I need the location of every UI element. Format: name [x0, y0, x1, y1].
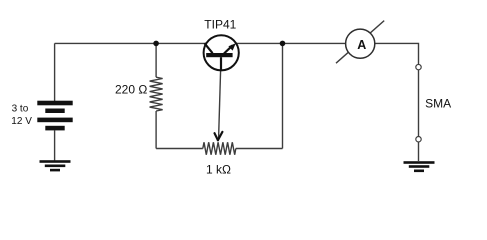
svg-text:SMA: SMA: [425, 96, 451, 110]
wire top horizontal rail: [55, 42, 346, 44]
junction dot right: [280, 41, 286, 47]
wire pot right: [236, 148, 283, 150]
junction dot left: [153, 41, 159, 47]
wire 220 ohm branch bottom: [155, 111, 157, 149]
wire battery bottom to ground: [54, 130, 56, 160]
wire transistor base to wiper: [219, 57, 221, 138]
svg-text:220 Ω: 220 Ω: [115, 82, 147, 96]
collector diagonal: [204, 43, 212, 53]
svg-text:1 kΩ: 1 kΩ: [206, 163, 231, 177]
wire battery top vertical: [54, 43, 56, 101]
connector terminal circle top: [416, 64, 421, 69]
base lead inside circle: [220, 57, 222, 70]
svg-text:3 to: 3 to: [12, 104, 29, 115]
resistor R2 1 kohm potentiometer zigzag: [203, 142, 236, 154]
emitter diagonal with arrow: [224, 45, 233, 53]
wire pot left: [156, 148, 203, 150]
wire ammeter to SMA corner: [375, 43, 419, 161]
transistor Q1 TIP41: [204, 35, 239, 70]
connector terminal circle bottom: [416, 137, 421, 142]
ammeter M1: [336, 21, 384, 64]
wiper arrow: [215, 132, 223, 140]
svg-text:TIP41: TIP41: [204, 17, 236, 31]
wire 220 ohm branch top: [155, 43, 157, 77]
resistor R1 220 ohm zigzag: [150, 77, 163, 111]
battery B1: [37, 101, 72, 131]
base bar: [206, 53, 232, 57]
wire pot right vertical to top rail: [282, 43, 284, 148]
meter diagonal line: [336, 21, 384, 64]
svg-text:12 V: 12 V: [11, 116, 32, 127]
ground battery: [40, 160, 71, 171]
ground SMA: [404, 161, 435, 172]
svg-text:A: A: [357, 38, 366, 52]
